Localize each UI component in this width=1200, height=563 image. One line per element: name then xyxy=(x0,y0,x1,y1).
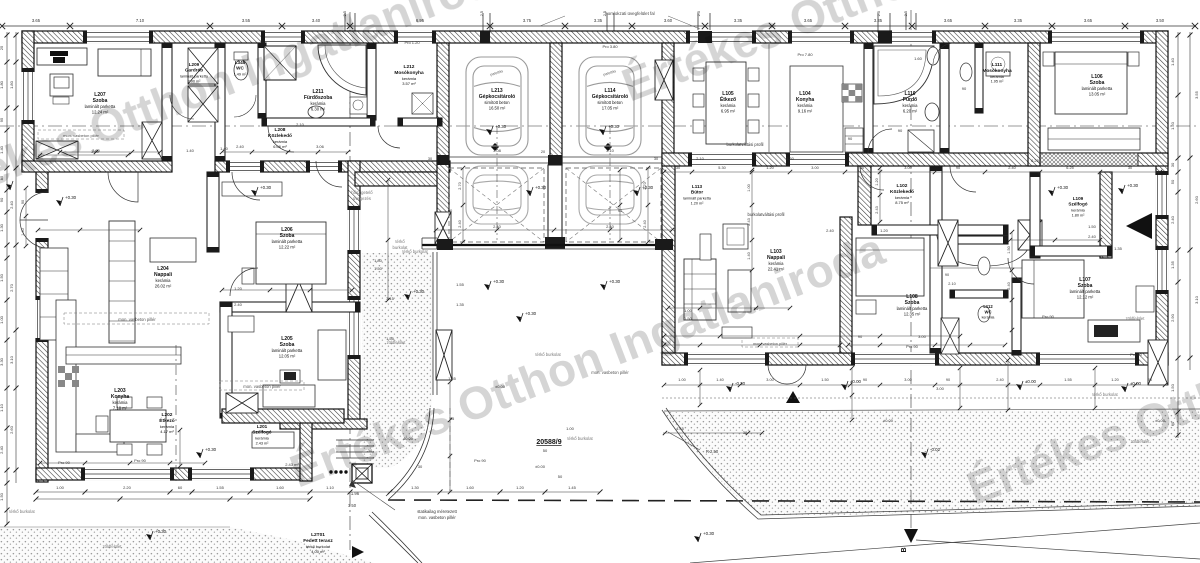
svg-text:90: 90 xyxy=(956,166,960,170)
interior doors left unit xyxy=(108,172,138,202)
room L113 xyxy=(683,184,712,205)
svg-text:2.40: 2.40 xyxy=(826,228,835,233)
section line horizontal xyxy=(0,125,1200,127)
svg-text:zöldfelület: zöldfelület xyxy=(1126,316,1146,321)
L110 toilet xyxy=(927,47,939,65)
wall L102 south xyxy=(872,225,1008,235)
svg-text:L205: L205 xyxy=(281,336,293,342)
L103 sofa xyxy=(684,259,716,320)
room L2T01 terasz xyxy=(303,532,333,554)
svg-text:Konyha: Konyha xyxy=(796,97,815,103)
wall WC small xyxy=(975,43,983,113)
svg-text:laminált parketta: laminált parketta xyxy=(897,306,928,311)
room L108 Szoba xyxy=(897,294,928,317)
svg-text:L208: L208 xyxy=(275,127,286,133)
svg-text:20588/9: 20588/9 xyxy=(536,439,561,446)
svg-text:Pro 90: Pro 90 xyxy=(474,458,487,463)
svg-text:3.00: 3.00 xyxy=(918,334,927,339)
svg-text:1.55: 1.55 xyxy=(456,282,465,287)
apron edge heavy xyxy=(422,244,673,246)
svg-text:90: 90 xyxy=(21,200,25,204)
courtyard left edge xyxy=(432,252,434,395)
svg-text:2.40: 2.40 xyxy=(234,302,243,307)
svg-text:3.50: 3.50 xyxy=(1156,18,1165,23)
svg-text:1.10: 1.10 xyxy=(0,403,4,412)
svg-text:1.80: 1.80 xyxy=(0,80,4,89)
svg-text:3.65: 3.65 xyxy=(32,18,41,23)
svg-text:kerámia: kerámia xyxy=(982,316,995,320)
svg-text:homlokzati üvegfelület fal: homlokzati üvegfelület fal xyxy=(605,11,654,16)
room L106 Szoba xyxy=(1082,74,1113,97)
svg-text:R 2.50: R 2.50 xyxy=(706,449,719,454)
bottom wall right unit xyxy=(662,353,1168,365)
svg-text:3.57 m²: 3.57 m² xyxy=(402,81,416,86)
road curbs xyxy=(662,410,1200,519)
svg-text:3.10: 3.10 xyxy=(1194,295,1199,304)
wall bath-L107 xyxy=(1012,278,1021,355)
wall Nappali-L206 xyxy=(207,172,219,252)
svg-text:L108: L108 xyxy=(906,294,918,300)
L103 coffee table xyxy=(728,270,751,312)
svg-text:2.40: 2.40 xyxy=(1008,166,1015,170)
car garage L114 xyxy=(579,57,641,155)
svg-text:1.50: 1.50 xyxy=(1088,224,1097,229)
svg-text:Pro 90: Pro 90 xyxy=(1042,314,1055,319)
L206 bed xyxy=(256,222,326,284)
svg-text:statikailag méretezett: statikailag méretezett xyxy=(417,509,457,514)
svg-text:mon. vasbeton pillér: mon. vasbeton pillér xyxy=(243,384,281,389)
svg-text:+0.30: +0.30 xyxy=(1127,183,1139,188)
top dimension chain xyxy=(2,25,1196,27)
svg-text:L201: L201 xyxy=(257,424,268,429)
svg-text:1.60: 1.60 xyxy=(276,485,285,490)
L109 bottom wall xyxy=(1030,246,1112,256)
wall WC-Furdoszoba xyxy=(258,43,266,118)
room L202 Etkezo xyxy=(159,412,175,434)
svg-text:26.02 m²: 26.02 m² xyxy=(155,284,172,289)
svg-text:L107: L107 xyxy=(1079,277,1091,283)
svg-text:1.50: 1.50 xyxy=(1007,246,1011,253)
svg-text:12.22 m²: 12.22 m² xyxy=(279,245,296,250)
svg-text:térkő: térkő xyxy=(395,239,405,244)
svg-text:Konyha: Konyha xyxy=(111,394,130,400)
svg-text:kerámia: kerámia xyxy=(156,278,172,283)
L207 sideboard xyxy=(37,48,87,65)
room L104 Konyha xyxy=(796,91,815,114)
chimney blocks xyxy=(698,31,712,43)
svg-text:7.10: 7.10 xyxy=(136,18,145,23)
L204 sofa xyxy=(40,248,68,340)
svg-text:L110: L110 xyxy=(904,91,915,97)
svg-text:Szoba: Szoba xyxy=(280,233,295,239)
svg-text:3.65: 3.65 xyxy=(944,18,953,23)
svg-text:6.25: 6.25 xyxy=(1031,158,1040,163)
svg-text:1.40: 1.40 xyxy=(747,252,751,259)
L110 basin xyxy=(925,103,939,121)
svg-text:5.30: 5.30 xyxy=(718,166,725,170)
room L110 Furdo xyxy=(903,91,919,114)
room L207 Szoba xyxy=(85,92,116,115)
svg-text:L114: L114 xyxy=(604,88,615,94)
L201 bottom wall xyxy=(280,419,367,429)
svg-text:Mosókonyha: Mosókonyha xyxy=(982,68,1012,74)
WC fixtures right xyxy=(978,257,990,275)
L108 bed xyxy=(856,238,924,296)
svg-text:L106: L106 xyxy=(1091,74,1103,80)
L111 washer xyxy=(986,52,1010,76)
svg-text:1.80: 1.80 xyxy=(9,80,14,89)
svg-text:90: 90 xyxy=(1148,378,1152,382)
svg-text:±0.00: ±0.00 xyxy=(883,418,894,423)
svg-text:3.55: 3.55 xyxy=(1194,90,1199,99)
svg-text:+0.30: +0.30 xyxy=(609,279,621,284)
L104 counter area xyxy=(790,66,843,152)
svg-text:L111: L111 xyxy=(992,62,1003,68)
svg-text:90: 90 xyxy=(618,208,623,213)
svg-text:95: 95 xyxy=(0,117,4,122)
svg-text:2.40: 2.40 xyxy=(643,220,647,227)
room L213 garage xyxy=(479,88,515,111)
svg-text:kerámia: kerámia xyxy=(1071,208,1085,212)
svg-text:6.25: 6.25 xyxy=(1066,166,1073,170)
svg-text:12.35 m²: 12.35 m² xyxy=(904,312,921,317)
room L203 Konyha xyxy=(111,388,130,411)
svg-text:Szélfogó: Szélfogó xyxy=(1068,202,1087,207)
svg-text:1.40: 1.40 xyxy=(21,228,25,235)
L209 wardrobes xyxy=(188,48,218,84)
svg-text:12.12 m²: 12.12 m² xyxy=(1077,295,1094,300)
room L111 Mosokonyha xyxy=(982,62,1012,84)
top exterior wall xyxy=(22,31,1168,43)
svg-text:1.00: 1.00 xyxy=(678,378,685,382)
svg-text:6.30 m²: 6.30 m² xyxy=(311,107,326,112)
big stipple bottom right xyxy=(664,410,1200,517)
room L105 Etkezo xyxy=(720,91,736,114)
left exterior wall upper xyxy=(22,31,34,171)
L207 bed xyxy=(98,49,151,76)
room L212 Mosokonyha xyxy=(394,64,424,86)
svg-text:2.40: 2.40 xyxy=(1007,282,1011,289)
L207 pillar boxes xyxy=(36,141,78,159)
svg-text:1.50: 1.50 xyxy=(348,503,357,508)
right exterior wall xyxy=(1156,31,1168,365)
svg-text:90: 90 xyxy=(946,378,950,382)
wall Konyha-Furdo xyxy=(864,44,873,153)
svg-text:Szoba: Szoba xyxy=(280,342,295,348)
svg-text:3.10: 3.10 xyxy=(9,355,14,364)
svg-text:2.10: 2.10 xyxy=(296,122,305,127)
svg-text:Gépkocsitároló: Gépkocsitároló xyxy=(479,94,515,100)
wall L108-bath xyxy=(930,166,942,353)
svg-text:1.00: 1.00 xyxy=(747,184,751,191)
section marker B xyxy=(904,529,918,543)
aprons xyxy=(449,168,544,242)
svg-text:kerámia: kerámia xyxy=(721,103,737,108)
svg-text:üvegezés: üvegezés xyxy=(353,196,371,201)
svg-text:1.55: 1.55 xyxy=(386,336,395,341)
section line vertical B xyxy=(910,10,912,528)
svg-text:kerámia: kerámia xyxy=(311,101,327,106)
L110 corner tub xyxy=(874,46,934,104)
svg-text:6.95 m²: 6.95 m² xyxy=(721,109,736,114)
svg-text:L212: L212 xyxy=(404,64,415,70)
svg-text:+0.30: +0.30 xyxy=(608,124,620,129)
svg-text:20: 20 xyxy=(541,150,545,154)
svg-text:90: 90 xyxy=(898,128,903,133)
svg-text:90: 90 xyxy=(448,208,453,213)
svg-text:WC: WC xyxy=(985,309,992,314)
svg-text:L105: L105 xyxy=(722,91,734,97)
svg-text:L204: L204 xyxy=(157,266,169,272)
svg-text:mon. vasbeton pillér: mon. vasbeton pillér xyxy=(418,515,456,520)
section line vertical A xyxy=(349,12,351,550)
L212 washer xyxy=(412,93,433,114)
svg-text:Bútor: Bútor xyxy=(691,190,703,195)
svg-text:2.40: 2.40 xyxy=(606,224,615,229)
right unit entrance double door xyxy=(768,365,787,384)
svg-text:±0.00: ±0.00 xyxy=(1025,379,1037,384)
svg-text:zöldfelület: zöldfelület xyxy=(103,544,123,549)
kitchen peninsula xyxy=(66,347,181,364)
svg-text:B: B xyxy=(901,547,908,552)
svg-text:1.35: 1.35 xyxy=(1114,246,1123,251)
svg-text:1.00: 1.00 xyxy=(566,426,575,431)
svg-text:2.60: 2.60 xyxy=(1194,195,1199,204)
carport middle pier strip xyxy=(548,165,562,241)
svg-text:+0.30: +0.30 xyxy=(493,279,505,284)
garage right wall xyxy=(662,43,674,165)
right unit left wall xyxy=(662,165,675,365)
svg-text:2.43: 2.43 xyxy=(747,218,751,225)
svg-text:Fürdő: Fürdő xyxy=(903,97,917,103)
svg-text:kerámia: kerámia xyxy=(903,103,919,108)
right wall left unit xyxy=(348,161,360,421)
room L103 Nappali xyxy=(767,249,786,272)
svg-text:Pro 1.20: Pro 1.20 xyxy=(404,40,420,45)
L345 toilet xyxy=(234,60,248,80)
svg-text:burkolatváltási profil: burkolatváltási profil xyxy=(747,212,784,217)
svg-text:mon. vasbeton pillér: mon. vasbeton pillér xyxy=(118,317,156,322)
svg-text:1.80: 1.80 xyxy=(374,258,383,263)
steps at L201 exit xyxy=(336,439,374,441)
section marker A triangle xyxy=(352,546,364,558)
svg-text:L103: L103 xyxy=(770,249,782,255)
left exterior wall lower xyxy=(36,168,48,482)
svg-text:3.35: 3.35 xyxy=(594,18,603,23)
wall Nappali-L205 xyxy=(220,302,232,418)
room L208 Kozlekedo xyxy=(268,127,292,149)
svg-text:-0.02: -0.02 xyxy=(930,447,941,452)
L109 right wall xyxy=(1100,172,1112,258)
svg-text:2.43: 2.43 xyxy=(875,206,879,213)
wall L209-WC xyxy=(215,43,225,161)
svg-text:2.5: 2.5 xyxy=(480,11,484,16)
terrace curves left xyxy=(386,408,430,496)
pillar boxes xyxy=(226,393,258,413)
L110 shower square xyxy=(908,130,934,152)
svg-text:1.40: 1.40 xyxy=(716,378,723,382)
svg-text:2.10: 2.10 xyxy=(696,156,705,161)
terrace top wall to garage xyxy=(355,172,440,186)
svg-text:12.05 m²: 12.05 m² xyxy=(279,354,296,359)
room L206 Szoba xyxy=(272,227,303,250)
room L109 Szelfogo xyxy=(1068,196,1087,217)
L207 tv dark xyxy=(50,51,68,63)
room L345 WC xyxy=(234,60,248,76)
L202 table xyxy=(110,410,166,442)
svg-text:burkolatváltási profil: burkolatváltási profil xyxy=(726,142,763,147)
svg-text:50: 50 xyxy=(1170,179,1175,184)
L212 door arc xyxy=(378,126,400,148)
wall L208 south xyxy=(215,161,450,172)
svg-text:2.20: 2.20 xyxy=(123,485,132,490)
svg-text:3.35: 3.35 xyxy=(1014,18,1023,23)
L103 top cabinet xyxy=(700,234,711,260)
green stipple bottom-left xyxy=(0,527,374,563)
svg-text:1.95 m²: 1.95 m² xyxy=(991,80,1005,84)
svg-text:4.17 m²: 4.17 m² xyxy=(160,429,174,434)
L107 bed xyxy=(1022,260,1084,318)
svg-text:Szoba: Szoba xyxy=(1078,283,1093,289)
svg-text:1.40: 1.40 xyxy=(186,148,195,153)
svg-text:9.16 m²: 9.16 m² xyxy=(798,109,813,114)
svg-text:L102: L102 xyxy=(897,183,908,189)
L105 dining table xyxy=(706,62,746,144)
wall L205 south xyxy=(222,409,344,423)
wall Nappali-L108 xyxy=(840,217,852,353)
svg-text:90: 90 xyxy=(848,136,853,141)
svg-text:Szoba: Szoba xyxy=(1090,80,1105,86)
L106 bed xyxy=(1055,52,1127,114)
svg-text:Fürdőszoba: Fürdőszoba xyxy=(304,95,333,101)
svg-text:3.10: 3.10 xyxy=(606,148,615,153)
svg-text:Pro 90: Pro 90 xyxy=(1130,352,1143,357)
svg-text:laminált parketta: laminált parketta xyxy=(1070,289,1101,294)
svg-text:térkő burkolat: térkő burkolat xyxy=(1092,392,1118,397)
svg-text:2.40: 2.40 xyxy=(493,224,502,229)
L211 washbasin xyxy=(308,106,324,118)
svg-text:1.50: 1.50 xyxy=(0,492,4,501)
car apron 2 xyxy=(579,166,641,224)
svg-text:16.50 m²: 16.50 m² xyxy=(489,106,506,111)
L207 desk xyxy=(50,74,73,96)
svg-text:30: 30 xyxy=(654,157,658,161)
svg-text:L203: L203 xyxy=(114,388,126,394)
svg-text:laminált parketta: laminált parketta xyxy=(272,348,303,353)
svg-text:Pro 7.80: Pro 7.80 xyxy=(797,52,813,57)
svg-text:1.20: 1.20 xyxy=(1111,378,1118,382)
dashed boundary xyxy=(388,500,1200,502)
svg-text:1.20 m²: 1.20 m² xyxy=(691,201,705,205)
L211 shower xyxy=(264,46,296,80)
svg-text:L213: L213 xyxy=(491,88,503,94)
svg-text:kerámia: kerámia xyxy=(990,75,1004,79)
svg-text:1.00: 1.00 xyxy=(0,315,4,324)
svg-text:1.40: 1.40 xyxy=(1170,57,1175,66)
section dash line x=176 xyxy=(175,345,177,485)
svg-text:+0.30: +0.30 xyxy=(65,195,77,200)
svg-text:laminált parketta: laminált parketta xyxy=(683,196,712,200)
svg-text:mon. vasbeton pillér: mon. vasbeton pillér xyxy=(753,342,788,346)
svg-text:2.70: 2.70 xyxy=(458,182,462,189)
right unit interior doors xyxy=(950,166,976,192)
svg-text:30: 30 xyxy=(418,464,423,469)
svg-text:Étkező: Étkező xyxy=(720,95,736,103)
svg-text:2.70: 2.70 xyxy=(643,182,647,189)
svg-text:50: 50 xyxy=(543,448,548,453)
L104 sink checker xyxy=(842,84,862,102)
svg-text:30: 30 xyxy=(860,166,864,170)
svg-text:Nappali: Nappali xyxy=(154,272,173,278)
room L205 Szoba xyxy=(272,336,303,359)
svg-text:3.65: 3.65 xyxy=(1084,18,1093,23)
svg-text:3.75: 3.75 xyxy=(523,18,532,23)
elevation flags xyxy=(6,184,11,190)
entrance arcs left xyxy=(20,192,48,220)
svg-text:kerámia: kerámia xyxy=(113,400,129,405)
svg-text:Szélfogó: Szélfogó xyxy=(252,430,271,435)
svg-text:L2T01: L2T01 xyxy=(311,532,325,538)
svg-text:L202: L202 xyxy=(162,412,173,418)
svg-text:1.55: 1.55 xyxy=(216,485,225,490)
svg-text:30: 30 xyxy=(1170,162,1175,167)
L201 bench xyxy=(252,432,294,448)
L107 dresser xyxy=(1088,320,1140,342)
svg-text:Pro 3.80: Pro 3.80 xyxy=(602,44,618,49)
svg-text:6.20 m²: 6.20 m² xyxy=(903,109,918,114)
svg-text:30: 30 xyxy=(1128,166,1132,170)
svg-text:+0.30: +0.30 xyxy=(495,124,507,129)
svg-text:laminált parketta: laminált parketta xyxy=(272,239,303,244)
wall Furdo-corridor xyxy=(940,44,949,153)
svg-text:hőszigetelő: hőszigetelő xyxy=(351,190,373,195)
svg-text:1.20: 1.20 xyxy=(875,178,879,185)
svg-text:laminált parketta: laminált parketta xyxy=(1082,86,1113,91)
L203 counters xyxy=(56,300,76,452)
L205 furniture xyxy=(263,385,315,407)
svg-text:2.60: 2.60 xyxy=(9,425,14,434)
room L201 Szelfogo xyxy=(252,424,271,445)
svg-text:1.60: 1.60 xyxy=(466,485,475,490)
svg-text:3.00: 3.00 xyxy=(904,166,911,170)
svg-text:2.40: 2.40 xyxy=(996,378,1003,382)
svg-text:Pro 90: Pro 90 xyxy=(58,460,71,465)
L211 corner tub xyxy=(318,45,366,95)
svg-text:3.30: 3.30 xyxy=(0,357,4,366)
svg-text:+0.30: +0.30 xyxy=(1057,185,1069,190)
svg-text:L113: L113 xyxy=(692,184,703,189)
wall below L207 xyxy=(22,161,172,172)
svg-text:2.40: 2.40 xyxy=(0,445,4,454)
svg-text:2.40: 2.40 xyxy=(9,200,14,209)
svg-text:2.5: 2.5 xyxy=(603,11,607,16)
svg-text:kerámia: kerámia xyxy=(798,103,814,108)
garage middle wall xyxy=(550,43,562,165)
svg-text:90: 90 xyxy=(945,273,949,277)
svg-text:1.50: 1.50 xyxy=(374,266,383,271)
svg-text:+0.30: +0.30 xyxy=(535,185,547,190)
right margin dims xyxy=(1177,32,1179,438)
garage left wall xyxy=(437,43,449,248)
svg-text:L206: L206 xyxy=(281,227,293,233)
dim line under right terrace 4.45 xyxy=(663,432,762,434)
svg-text:90: 90 xyxy=(858,334,863,339)
bottom wall left unit xyxy=(36,468,310,480)
svg-text:+0.30: +0.30 xyxy=(205,447,217,452)
wall L207-L209 xyxy=(162,43,172,161)
L201 right wall xyxy=(300,419,312,481)
svg-text:Pro 90: Pro 90 xyxy=(134,458,147,463)
